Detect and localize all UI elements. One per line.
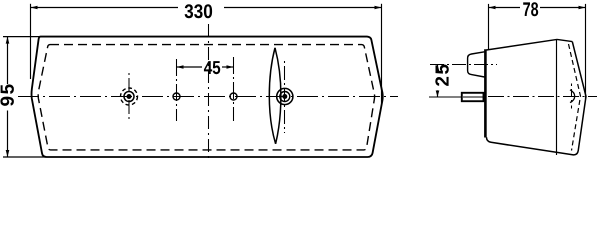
dimension 25 arrows [436, 65, 440, 72]
dimension 78 arrows [489, 6, 496, 10]
lens diamond rib right edge [275, 48, 281, 144]
lens top edge [557, 39, 572, 41]
horizontal centerline [18, 96, 398, 98]
stud centerline [429, 96, 462, 98]
housing back plate [484, 49, 487, 137]
dimension 25 line stubs [437, 65, 439, 98]
lens screw boss centerline [571, 84, 573, 109]
hole H1 [173, 93, 180, 100]
hole H1 centerline / 45 extension [176, 59, 178, 121]
grommet centerline [430, 64, 497, 66]
dimension 330 text [185, 4, 213, 18]
stud [462, 93, 484, 101]
dimension 78 extension left [488, 4, 490, 50]
side view centerline [488, 96, 597, 98]
dimension 45 text [204, 61, 220, 74]
dimension 330 extension left [30, 4, 32, 79]
grommet [468, 52, 485, 77]
dimension 330 line [31, 7, 382, 9]
lens screw boss arc [570, 90, 575, 103]
dimension 78 extension right [585, 4, 587, 99]
dimension 78 line [489, 7, 586, 9]
screw S1 [121, 88, 138, 105]
dimension 95 text [0, 84, 14, 105]
lens joint line [556, 39, 558, 155]
lens face and bottom edge [487, 42, 587, 155]
dimension 330 arrows [31, 6, 38, 10]
dimension 95 arrows [6, 37, 10, 44]
dimension 45 arrows [177, 65, 184, 69]
screw S1 centerline [128, 73, 130, 122]
lamp inner dashed outline (lens edge) [38, 45, 374, 150]
lens diamond rib left edge [269, 48, 275, 144]
stud thread line [463, 96, 483, 98]
dimension 330 extension right [381, 4, 383, 104]
screw S2 [277, 88, 293, 104]
dimension 78 text [523, 2, 538, 16]
lens hidden edge dashed [569, 44, 581, 151]
vertical lamp centerline [208, 24, 210, 161]
screw S2 centerline [284, 61, 286, 133]
dimension 95 extension top [3, 36, 45, 38]
hole H2 centerline / 45 extension [233, 57, 235, 121]
dimension 45 line [177, 66, 234, 68]
dimension 95 line [7, 37, 9, 157]
dimension 25 text [435, 65, 449, 86]
lamp outer outline [32, 37, 383, 157]
hole H2 [230, 93, 237, 100]
dimension 95 extension bottom [3, 156, 46, 158]
housing top edge [486, 39, 557, 50]
